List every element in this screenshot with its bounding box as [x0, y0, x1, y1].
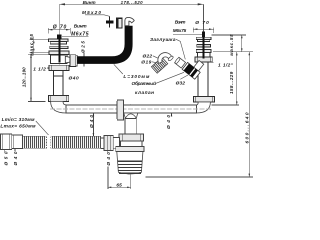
svg-text:Винт: Винт — [74, 24, 88, 30]
svg-text:Ø25: Ø25 — [81, 41, 86, 53]
svg-text:макс.55: макс.55 — [229, 34, 234, 56]
svg-text:Ø40: Ø40 — [106, 152, 111, 166]
svg-text:Ø40: Ø40 — [13, 151, 18, 165]
svg-text:Lmax= 650мм: Lmax= 650мм — [0, 124, 36, 130]
svg-text:120...190: 120...190 — [21, 67, 26, 87]
svg-text:макс.55: макс.55 — [29, 34, 34, 56]
svg-text:Ø22: Ø22 — [143, 54, 153, 60]
svg-text:Ø 70: Ø 70 — [53, 24, 67, 30]
svg-text:Обратный: Обратный — [132, 80, 157, 87]
svg-text:Ø 70: Ø 70 — [195, 20, 209, 26]
svg-text:178...520: 178...520 — [121, 0, 144, 5]
svg-text:Винт: Винт — [175, 20, 186, 25]
svg-text:Ø32: Ø32 — [176, 80, 186, 86]
svg-text:65: 65 — [116, 182, 122, 188]
svg-text:600...640: 600...640 — [245, 112, 251, 143]
svg-text:Lmin= 310мм: Lmin= 310мм — [2, 117, 35, 123]
svg-text:М6х75: М6х75 — [71, 31, 89, 37]
svg-text:1 1/2": 1 1/2" — [218, 63, 234, 69]
svg-text:М5х20: М5х20 — [82, 10, 101, 15]
svg-text:1 1/2": 1 1/2" — [33, 66, 49, 72]
svg-text:Ø40: Ø40 — [166, 115, 171, 129]
svg-text:158...229: 158...229 — [229, 71, 234, 94]
svg-text:клапан: клапан — [135, 91, 154, 96]
svg-text:Ø19: Ø19 — [141, 60, 151, 66]
svg-text:Ø40: Ø40 — [69, 76, 80, 82]
svg-text:Заглушка: Заглушка — [150, 37, 176, 43]
svg-text:Ø40: Ø40 — [89, 115, 94, 128]
svg-text:М6х75: М6х75 — [173, 28, 187, 33]
svg-text:Ø50: Ø50 — [3, 151, 8, 165]
svg-text:Винт: Винт — [83, 0, 96, 5]
svg-text:L=300мм: L=300мм — [123, 74, 149, 80]
